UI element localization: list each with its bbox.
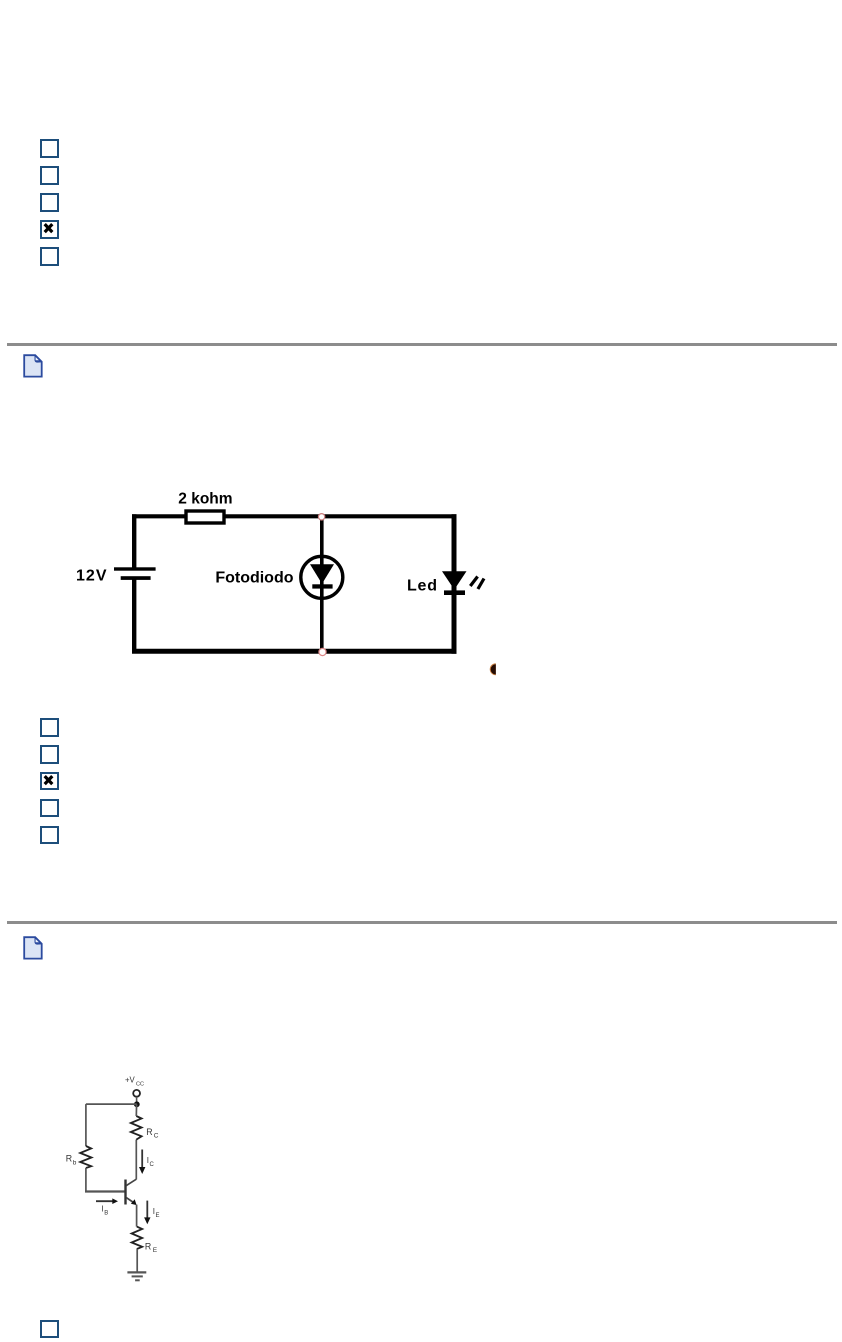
svg-text:C: C <box>150 1162 155 1168</box>
svg-text:+V: +V <box>125 1076 136 1085</box>
checkbox Q2 option 1 (unchecked) <box>40 718 59 737</box>
wire base horizontal <box>85 1190 126 1192</box>
current arrow Ie <box>146 1201 148 1219</box>
document icon 1 <box>23 354 44 378</box>
current arrow Ic <box>141 1150 143 1169</box>
wire junction to Rc <box>135 1104 137 1116</box>
transistor Q1 collector diagonal <box>126 1179 136 1185</box>
svg-text:E: E <box>156 1213 160 1219</box>
resistor Re (zigzag) <box>132 1227 143 1249</box>
svg-text:R: R <box>146 1127 152 1137</box>
svg-text:Fotodiodo: Fotodiodo <box>215 569 293 586</box>
checkbox Q3 option 1 (unchecked) <box>40 1320 59 1339</box>
ground symbol <box>127 1271 146 1273</box>
battery B1 plate - (short) <box>121 576 151 580</box>
wire: bottom return <box>132 649 457 654</box>
node top (junction) <box>318 514 324 520</box>
resistor 2 kohm (box) <box>186 511 224 523</box>
photodiode D1 triangle <box>310 564 334 584</box>
svg-text:Led: Led <box>407 577 438 594</box>
svg-text:C: C <box>154 1133 159 1140</box>
wire: top (battery+ to LED) <box>132 514 457 518</box>
transistor Q1 emitter arrowhead <box>131 1199 137 1205</box>
LED D2 triangle <box>442 571 467 589</box>
checkbox Q2 option 2 (unchecked) <box>40 745 59 764</box>
wire: left lower (battery - to bottom) <box>132 580 136 653</box>
photodiode D1 cathode bar <box>312 584 332 588</box>
svg-text:E: E <box>153 1247 158 1254</box>
resistor Rb (zigzag) <box>80 1146 91 1168</box>
circuit 2: transistor bias schematic <box>0 1060 842 1342</box>
checkbox Q1 option 1 (unchecked) <box>40 139 59 158</box>
current arrow Ib <box>96 1200 114 1202</box>
junction dot <box>134 1101 140 1107</box>
Vcc terminal circle <box>133 1090 140 1097</box>
checkbox Q1 option 2 (unchecked) <box>40 166 59 185</box>
wire left vertical lower <box>85 1168 87 1192</box>
svg-text:2 kohm: 2 kohm <box>178 491 232 508</box>
transistor Q1 base bar <box>124 1180 126 1205</box>
wire junction to left <box>86 1103 137 1105</box>
checkbox Q2 option 5 (unchecked) <box>40 826 59 845</box>
divider 2 <box>7 921 837 924</box>
wire emitter vertical <box>136 1205 138 1227</box>
svg-text:CC: CC <box>136 1082 144 1088</box>
wire: right (LED branch) <box>452 514 457 654</box>
document icon 2 <box>23 936 44 960</box>
node bottom (junction) <box>319 648 326 655</box>
svg-text:B: B <box>104 1211 108 1217</box>
divider 1 <box>7 343 837 346</box>
circuit 1: photodiode/LED schematic <box>0 0 842 700</box>
svg-text:b: b <box>73 1160 77 1167</box>
photodiode D1 (circle) <box>301 556 343 598</box>
wire: photodiode branch (vertical) <box>320 514 324 654</box>
wire: left upper (to battery +) <box>132 514 136 567</box>
stray red mark <box>490 663 496 675</box>
checkbox Q1 option 4 (checked X) <box>40 220 59 239</box>
svg-text:12V: 12V <box>76 568 107 585</box>
wire collector vertical <box>135 1140 137 1180</box>
battery B1 plate + (long) <box>114 567 156 570</box>
transistor Q1 emitter diagonal <box>126 1198 133 1203</box>
wire left vertical upper <box>85 1104 87 1146</box>
checkbox Q2 option 3 (checked X) <box>40 772 59 791</box>
resistor Rc (zigzag) <box>131 1116 142 1140</box>
svg-text:R: R <box>145 1241 151 1251</box>
checkbox Q2 option 4 (unchecked) <box>40 799 59 818</box>
wire Re to ground <box>136 1249 138 1272</box>
svg-text:R: R <box>66 1153 72 1163</box>
checkbox Q1 option 3 (unchecked) <box>40 193 59 212</box>
LED D2 cathode bar <box>444 590 465 595</box>
LED D2 light rays <box>470 577 477 587</box>
checkbox Q1 option 5 (unchecked) <box>40 247 59 266</box>
wire Vcc to junction <box>136 1097 138 1105</box>
